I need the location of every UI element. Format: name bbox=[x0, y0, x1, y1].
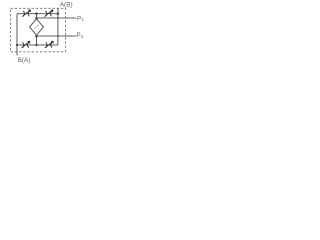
wire: left vertical to port B(A) bbox=[16, 14, 18, 56]
svg-text:P1: P1 bbox=[77, 15, 84, 22]
wire: gauge line P1 bbox=[37, 17, 77, 19]
check valve diamond bbox=[30, 19, 44, 35]
wire: bottom rail bbox=[17, 44, 58, 46]
adjustable orifice top-left bbox=[22, 10, 30, 17]
svg-text:A(B): A(B) bbox=[60, 1, 73, 8]
node: stem/top rail bbox=[35, 12, 38, 15]
svg-text:B(A): B(A) bbox=[18, 57, 31, 64]
adjustable orifice bottom-right bbox=[45, 41, 53, 48]
wire: center stem below diamond bbox=[36, 35, 38, 45]
wire: gauge line P2 bbox=[37, 35, 77, 37]
adjustable orifice bottom-left bbox=[22, 41, 30, 48]
wire: center stem above diamond bbox=[36, 14, 38, 20]
adjustable orifice top-right bbox=[45, 10, 53, 17]
node: diamond top vertex bbox=[35, 17, 38, 20]
wire: port A(B) stub through top edge bbox=[57, 8, 59, 13]
node: rail top at A(B) bbox=[57, 12, 60, 15]
wire: top rail bbox=[17, 13, 58, 15]
wire: right rail bbox=[57, 14, 59, 45]
node: rail/P1 crossing bbox=[57, 17, 59, 19]
node: stem/bottom rail bbox=[35, 44, 37, 46]
node: rail/P2 crossing bbox=[57, 35, 59, 37]
node: left/bottom rail junction bbox=[16, 44, 18, 46]
node: diamond bottom branch bbox=[35, 35, 38, 38]
filter dashes inside diamond bbox=[34, 25, 39, 29]
svg-text:P2: P2 bbox=[77, 32, 84, 39]
valve body dashed enclosure bbox=[11, 8, 66, 52]
